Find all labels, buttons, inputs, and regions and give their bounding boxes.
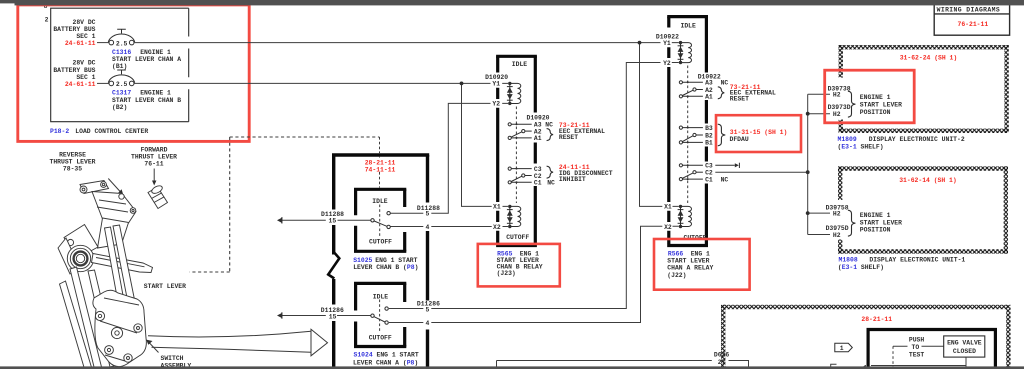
svg-text:5: 5 — [426, 211, 430, 218]
flag note 1 — [835, 343, 853, 351]
svg-text:PUSH: PUSH — [909, 336, 925, 343]
circuit breaker C1316 2.5A — [108, 29, 134, 45]
svg-text:31-62-24 (SH 1): 31-62-24 (SH 1) — [900, 54, 958, 61]
wire: S1025 pin 15 to off-page arrow — [282, 219, 371, 221]
svg-text:2: 2 — [45, 16, 49, 23]
svg-text:Y2: Y2 — [492, 101, 500, 108]
svg-text:A1: A1 — [705, 94, 713, 101]
wire to breaker C1317 — [97, 82, 109, 84]
S1025 switch contacts and arm — [371, 212, 391, 229]
R565 contacts C3/C2/C1 — [508, 167, 511, 170]
svg-text:SEC 1: SEC 1 — [76, 33, 95, 40]
svg-text:B3: B3 — [705, 125, 713, 132]
svg-text:X2: X2 — [664, 224, 672, 231]
svg-text:ENGINE 1: ENGINE 1 — [860, 212, 891, 219]
svg-text:CUTOFF: CUTOFF — [369, 334, 392, 341]
svg-text:A3: A3 — [705, 80, 713, 87]
R566 C3 termination arrow — [715, 164, 735, 166]
wire: S1025 pin 4 to R565 X2 — [391, 226, 509, 228]
svg-text:2.5: 2.5 — [116, 40, 128, 47]
svg-text:C1: C1 — [534, 180, 542, 187]
R565 idle coil with diodes — [508, 82, 511, 85]
svg-text:P18-2LOAD CONTROL CENTER: P18-2LOAD CONTROL CENTER — [50, 128, 148, 135]
DFDAU annotation red box — [716, 115, 801, 152]
svg-text:D3973D: D3973D — [828, 104, 851, 111]
svg-text:NC: NC — [721, 80, 729, 87]
svg-text:5: 5 — [426, 307, 430, 314]
svg-text:CHAN A RELAY: CHAN A RELAY — [667, 264, 713, 271]
R565 mechanical linkage dashed — [515, 107, 517, 204]
svg-text:28V DC: 28V DC — [72, 60, 95, 67]
relay R565 box — [496, 56, 537, 245]
svg-text:START LEVER: START LEVER — [667, 257, 709, 264]
svg-text:START LEVER CHAN A: START LEVER CHAN A — [112, 56, 181, 63]
svg-text:C1: C1 — [705, 176, 713, 183]
wire: S1024 pin 15 to off-page arrow — [282, 315, 371, 317]
svg-text:24-61-11: 24-61-11 — [65, 81, 96, 88]
R565 brace A2-A1 — [547, 129, 554, 141]
fuel control module thick box — [867, 330, 998, 369]
M1809 display unit chain-link box — [839, 45, 1009, 133]
svg-text:BATTERY BUS: BATTERY BUS — [53, 67, 95, 74]
svg-text:H2: H2 — [833, 210, 841, 217]
switch module outer box — [332, 155, 429, 369]
svg-text:78-35: 78-35 — [63, 165, 82, 172]
svg-text:4: 4 — [426, 224, 430, 231]
bottom window bar — [0, 366, 1024, 369]
svg-text:RESET: RESET — [730, 96, 749, 103]
svg-text:D10920: D10920 — [527, 115, 550, 122]
wire to D3975D-H2 — [808, 234, 830, 236]
junction dot on wire B — [460, 82, 464, 86]
R566 mechanical linkage dashed — [687, 66, 689, 204]
R566 idle coil with diodes — [679, 41, 682, 44]
svg-text:15: 15 — [329, 313, 337, 320]
linkage attachment dots on contact arms — [516, 123, 518, 125]
svg-text:S1025ENG 1 START: S1025ENG 1 START — [353, 257, 417, 264]
svg-text:15: 15 — [329, 218, 337, 225]
dashed association box around start lever — [190, 137, 380, 272]
svg-text:CUTOFF: CUTOFF — [506, 234, 529, 241]
wire: R566 X2 to S1024 pin 4 riser — [389, 226, 679, 322]
wire through push-to-test — [893, 345, 944, 347]
svg-text:(B1): (B1) — [112, 63, 127, 70]
svg-text:28-21-11: 28-21-11 — [365, 160, 396, 167]
wire to breaker C1316 — [97, 42, 109, 44]
R566 brace B3-B1 — [718, 124, 726, 146]
svg-text:POSITION: POSITION — [860, 109, 891, 116]
wire A: 28V from C1316 to relay R566 Y1 — [134, 42, 679, 44]
svg-text:(J22): (J22) — [667, 272, 686, 279]
R566 contacts C3/C2/C1 — [679, 164, 682, 167]
svg-text:D626: D626 — [714, 352, 730, 359]
svg-text:IDLE: IDLE — [372, 198, 388, 205]
svg-text:H2: H2 — [833, 232, 841, 239]
R566 contacts A3/A2/A1 — [679, 81, 682, 84]
brace H2 pair (unit 2) — [848, 91, 856, 117]
svg-text:DFDAU: DFDAU — [730, 136, 749, 143]
svg-text:START LEVER CHAN B: START LEVER CHAN B — [112, 97, 181, 104]
svg-text:CUTOFF: CUTOFF — [369, 238, 392, 245]
svg-text:BATTERY BUS: BATTERY BUS — [53, 26, 95, 33]
svg-text:THRUST LEVER: THRUST LEVER — [49, 158, 95, 165]
svg-text:B1: B1 — [705, 140, 713, 147]
svg-text:IDLE: IDLE — [512, 61, 528, 68]
svg-text:1: 1 — [840, 345, 844, 352]
svg-text:NC: NC — [545, 122, 553, 129]
svg-text:M1809DISPLAY ELECTRONIC UNIT-2: M1809DISPLAY ELECTRONIC UNIT-2 — [838, 136, 965, 143]
svg-text:RESET: RESET — [559, 134, 578, 141]
leader arrow to switch assembly — [150, 343, 159, 353]
R565 cutoff coil with diodes — [508, 205, 511, 208]
svg-text:ENG VALVE: ENG VALVE — [947, 339, 982, 346]
S1024 switch contacts and arm — [371, 307, 389, 324]
circuit breaker C1317 2.5A — [108, 70, 134, 86]
svg-text:THRUST LEVER: THRUST LEVER — [131, 153, 177, 160]
svg-text:START LEVER: START LEVER — [860, 102, 902, 109]
R566 cutoff coil with diodes — [679, 205, 682, 208]
svg-text:POSITION: POSITION — [860, 227, 891, 234]
load control center box P18-2 — [51, 8, 189, 122]
relay R566 box — [667, 17, 708, 246]
svg-text:28V DC: 28V DC — [72, 19, 95, 26]
svg-text:Y1: Y1 — [663, 40, 671, 47]
brace H2 pair (unit 1) — [848, 210, 856, 236]
eng valve closed indicator box — [944, 336, 985, 357]
svg-text:X1: X1 — [664, 204, 672, 211]
svg-text:C1316ENGINE 1: C1316ENGINE 1 — [112, 49, 171, 56]
svg-text:SEC 1: SEC 1 — [76, 74, 95, 81]
dashed linkage in switch S1024 — [379, 300, 381, 332]
R566 annotation red box — [654, 239, 750, 290]
svg-text:NC: NC — [721, 176, 729, 183]
wire D626 pin 27 — [497, 361, 749, 369]
svg-text:D3975D: D3975D — [826, 225, 849, 232]
partial wire row at bottom edge — [831, 364, 837, 369]
svg-text:INHIBIT: INHIBIT — [559, 176, 586, 183]
leader arrow to forward lever — [153, 169, 155, 182]
R565 contacts A3/A2/A1 — [508, 123, 511, 126]
annotation red box around start lever position pins — [825, 70, 915, 123]
switch S1024 box — [354, 283, 406, 346]
large pointer arrow from switch assembly to switch module — [148, 331, 311, 337]
svg-text:WIRING DIAGRAMS: WIRING DIAGRAMS — [937, 6, 1001, 13]
svg-text:IDLE: IDLE — [681, 22, 697, 29]
svg-text:(B2): (B2) — [112, 104, 127, 111]
svg-text:Y2: Y2 — [663, 60, 671, 67]
dashed linkage above switch S1025 — [379, 137, 381, 236]
svg-text:TEST: TEST — [909, 351, 925, 358]
svg-text:A1: A1 — [534, 135, 542, 142]
dashed line below push-to-test — [892, 346, 894, 368]
svg-text:LEVER CHAN B (P8): LEVER CHAN B (P8) — [353, 264, 418, 271]
thrust lever mechanism illustration — [58, 181, 168, 369]
junction dot on wire A — [638, 41, 642, 45]
svg-text:31-62-14 (SH 1): 31-62-14 (SH 1) — [899, 177, 957, 184]
svg-text:IDLE: IDLE — [373, 293, 389, 300]
wire: R565 Y2 to S1025 pin 5 riser — [391, 103, 509, 213]
leader arrow to reverse lever — [108, 179, 121, 193]
svg-text:H2: H2 — [833, 91, 841, 98]
svg-text:X1: X1 — [493, 204, 501, 211]
R566 brace A2-A1 — [718, 87, 725, 99]
off-page arrow at S1025 pin 15 — [277, 218, 282, 223]
svg-text:(E3-1 SHELF): (E3-1 SHELF) — [838, 144, 884, 151]
svg-text:2.5: 2.5 — [116, 81, 128, 88]
svg-text:S1024ENG 1 START: S1024ENG 1 START — [354, 352, 419, 359]
svg-text:(J23): (J23) — [497, 270, 516, 277]
svg-text:M1808DISPLAY ELECTRONIC UNIT-1: M1808DISPLAY ELECTRONIC UNIT-1 — [839, 257, 966, 264]
R566 contacts B3/B2/B1 — [679, 126, 682, 129]
svg-text:SWITCH: SWITCH — [161, 355, 184, 362]
wire to D39738-H2 — [808, 93, 830, 95]
svg-text:NC: NC — [547, 180, 555, 187]
wire: R566 Y2 to S1024 pin 5 riser — [389, 63, 679, 309]
wire B: 28V from C1317 to relay R565 Y1 — [134, 82, 508, 84]
red highlight box around load control center — [18, 5, 249, 142]
svg-text:B2: B2 — [705, 132, 713, 139]
wire to D39758-H2 — [808, 212, 830, 214]
switch S1025 box — [354, 189, 406, 251]
svg-text:27: 27 — [718, 359, 726, 366]
svg-text:LEVER CHAN A (P8): LEVER CHAN A (P8) — [353, 360, 418, 367]
svg-text:X2: X2 — [493, 224, 501, 231]
svg-text:28-21-11: 28-21-11 — [861, 316, 892, 323]
svg-text:76-21-11: 76-21-11 — [958, 21, 989, 28]
break (lightning) symbol on outer box edge — [328, 252, 339, 279]
svg-text:START LEVER: START LEVER — [860, 219, 902, 226]
svg-text:24-61-11: 24-61-11 — [65, 40, 96, 47]
svg-text:4: 4 — [426, 320, 430, 327]
svg-text:Y1: Y1 — [492, 81, 500, 88]
R565 annotation red box — [478, 244, 560, 287]
wiring diagrams title box — [934, 1, 1009, 35]
svg-text:R566ENG 1: R566ENG 1 — [668, 250, 710, 257]
svg-text:START LEVER: START LEVER — [144, 283, 186, 290]
svg-text:FORWARD: FORWARD — [141, 146, 168, 153]
svg-text:76-11: 76-11 — [144, 161, 163, 168]
svg-text:ENGINE 1: ENGINE 1 — [860, 94, 891, 101]
svg-text:REVERSE: REVERSE — [59, 151, 86, 158]
M1808 display unit chain-link box — [838, 166, 1008, 253]
stub below indicator — [965, 357, 967, 368]
svg-text:CLOSED: CLOSED — [953, 348, 976, 355]
top window bar — [0, 0, 15, 3]
svg-text:74-11-11: 74-11-11 — [365, 167, 396, 174]
junction with C2 wire — [806, 170, 810, 174]
svg-text:H2: H2 — [833, 111, 841, 118]
R565 brace C3-C2 — [547, 166, 554, 178]
svg-text:(E3-1 SHELF): (E3-1 SHELF) — [838, 264, 884, 271]
svg-text:31-31-15 (SH 1): 31-31-15 (SH 1) — [730, 129, 788, 136]
wire: R566 X1 riser from wire A junction — [640, 43, 679, 207]
svg-text:C1317ENGINE 1: C1317ENGINE 1 — [112, 90, 171, 97]
svg-text:TO: TO — [912, 344, 920, 351]
off-page arrow at S1024 pin 15 — [277, 313, 282, 318]
node: display feed vertical bus — [807, 94, 809, 234]
28-21-11 system chain-link box — [721, 305, 1011, 369]
wire: R566 C2 to display units — [715, 171, 807, 173]
wire: R565 X1 riser from wire B junction — [462, 83, 509, 206]
wire to D3973D-H2 — [808, 113, 830, 115]
